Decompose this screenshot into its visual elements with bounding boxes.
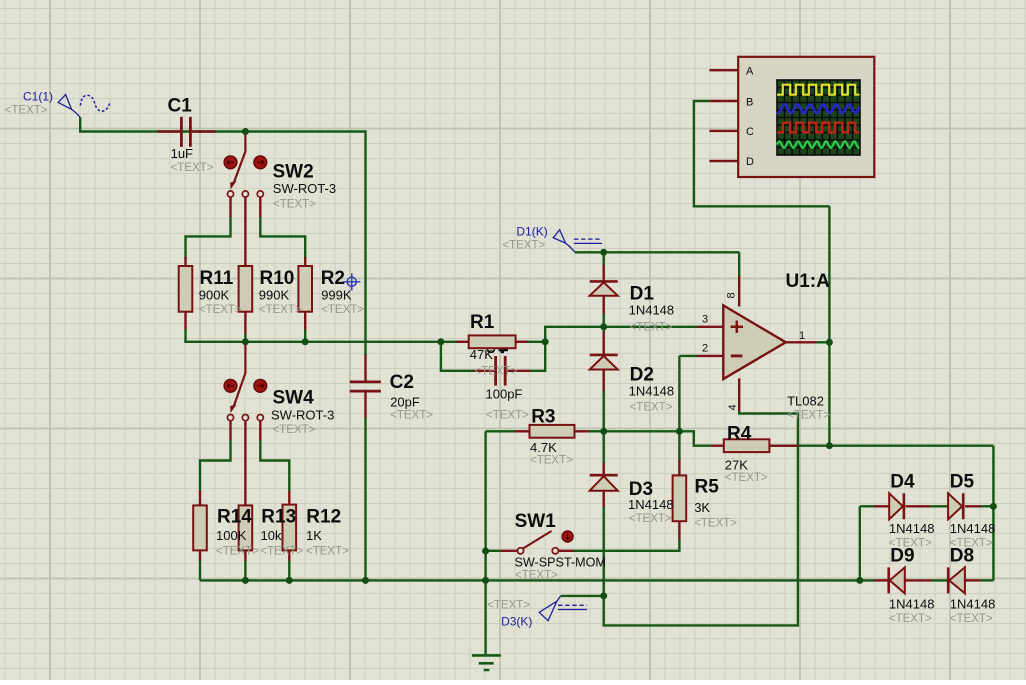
- pin R4 left: [712, 445, 725, 447]
- svg-text:R14: R14: [217, 507, 252, 528]
- wire D1 bottom: [603, 314, 605, 327]
- svg-text:1N4148: 1N4148: [629, 384, 675, 399]
- wire op-amp pin4 net: [604, 411, 798, 625]
- pin C1 left: [158, 130, 181, 132]
- pin D2 bottom: [603, 370, 605, 391]
- pin scope D: [709, 160, 738, 162]
- svg-text:<TEXT>: <TEXT>: [889, 613, 932, 625]
- wire SW2 pole3 to R2: [260, 217, 305, 259]
- svg-text:<TEXT>: <TEXT>: [321, 304, 364, 316]
- pin D1 top: [603, 265, 605, 282]
- capacitor C1: [181, 117, 190, 147]
- pin R12 bottom: [288, 550, 290, 560]
- switch SW4 pole dot left: [224, 379, 237, 392]
- wire R2 bottom: [304, 329, 306, 343]
- scope trace channel B (blue sine wave): [777, 104, 859, 113]
- pin D9 right: [905, 579, 932, 581]
- resistor R3: [530, 425, 575, 438]
- junction: [242, 577, 249, 584]
- wire R14 bottom: [199, 560, 201, 580]
- svg-text:TL082: TL082: [787, 394, 824, 409]
- svg-text:<TEXT>: <TEXT>: [629, 513, 672, 525]
- wire between D4 and D5: [930, 505, 948, 507]
- wire D2 bottom: [603, 390, 605, 431]
- pin D5 right: [965, 505, 980, 507]
- pin R5 top: [678, 459, 680, 476]
- pin op-amp 1 output: [786, 341, 817, 343]
- wire R10 bottom: [244, 334, 246, 343]
- svg-text:<TEXT>: <TEXT>: [216, 546, 259, 558]
- wire R11 bottom: [184, 329, 186, 343]
- wire R4 right to output node: [769, 445, 829, 447]
- svg-text:990K: 990K: [259, 288, 290, 303]
- wire SW4 pole3 to R12: [260, 440, 289, 492]
- svg-text:<TEXT>: <TEXT>: [273, 424, 316, 436]
- pin op-amp 2: [697, 355, 723, 357]
- svg-text:SW-ROT-3: SW-ROT-3: [271, 408, 334, 423]
- svg-text:<TEXT>: <TEXT>: [725, 472, 768, 484]
- svg-text:D2: D2: [630, 365, 654, 386]
- svg-text:10k: 10k: [261, 528, 282, 543]
- pin D4 left: [874, 505, 889, 507]
- pin R2 top: [304, 257, 306, 267]
- resistor R2: [298, 266, 312, 312]
- pin R3 right: [575, 430, 590, 432]
- svg-text:<TEXT>: <TEXT>: [630, 322, 673, 334]
- wire D1 top: [603, 252, 605, 265]
- pin R2 bottom: [304, 312, 306, 330]
- wire R1 right: [516, 341, 546, 343]
- terminal D3(K) flag: [539, 596, 587, 621]
- junction: [437, 338, 444, 345]
- svg-text:D1: D1: [630, 284, 655, 305]
- wire R3 left down to SW1: [484, 431, 486, 551]
- pin R14 top: [199, 491, 201, 505]
- junction: [600, 592, 607, 599]
- switch SW2 rotor arm: [230, 133, 245, 190]
- svg-text:D5: D5: [950, 472, 975, 493]
- wire op-amp output stub: [816, 341, 829, 343]
- diode D9: [889, 567, 905, 593]
- svg-text:100K: 100K: [216, 528, 247, 543]
- svg-text:<TEXT>: <TEXT>: [502, 240, 545, 252]
- wire op-amp pin2 stub: [679, 355, 697, 357]
- wire node to R4 left jog: [679, 431, 712, 445]
- svg-text:<TEXT>: <TEXT>: [260, 546, 303, 558]
- wire R3 left: [486, 430, 516, 432]
- SW2 contact 2: [242, 191, 248, 197]
- pin R4 right: [769, 445, 798, 447]
- pin scope B: [709, 100, 738, 102]
- pin op-amp 8: [738, 276, 740, 307]
- diode D2: [590, 355, 618, 370]
- svg-text:<TEXT>: <TEXT>: [259, 304, 302, 316]
- svg-text:100pF: 100pF: [486, 387, 523, 402]
- svg-text:<TEXT>: <TEXT>: [630, 402, 673, 414]
- oscilloscope screen: [777, 80, 860, 155]
- resistor R4: [724, 439, 770, 452]
- svg-text:999K: 999K: [321, 288, 352, 303]
- diode D8: [948, 567, 965, 593]
- terminal D1(K) flag: [553, 230, 602, 252]
- junction: [990, 503, 997, 510]
- svg-text:R2: R2: [321, 268, 345, 289]
- junction: [302, 338, 309, 345]
- scope trace channel A (yellow square wave): [777, 85, 860, 95]
- svg-text:8: 8: [726, 292, 738, 298]
- svg-text:1N4148: 1N4148: [889, 597, 935, 612]
- junction: [482, 548, 489, 555]
- diode D1: [590, 281, 618, 295]
- pin R14 bottom: [199, 550, 201, 560]
- svg-text:D1(K): D1(K): [516, 225, 547, 239]
- pin R3 left: [515, 430, 530, 432]
- svg-text:3K: 3K: [694, 500, 710, 515]
- svg-text:D4: D4: [890, 472, 915, 493]
- svg-text:<TEXT>: <TEXT>: [487, 600, 530, 612]
- svg-text:<TEXT>: <TEXT>: [475, 366, 518, 378]
- diode D5: [948, 493, 963, 519]
- pin C2 bottom: [364, 392, 366, 418]
- wire D8 right stub: [980, 579, 993, 581]
- switch SW1 momentary button: [562, 531, 573, 542]
- pin SW1 left: [501, 550, 518, 552]
- pin D3 top: [603, 463, 605, 476]
- switch SW1 lever: [523, 531, 552, 549]
- pin R5 bottom: [678, 521, 680, 540]
- switch SW4 rotor arm: [230, 343, 245, 413]
- svg-text:<TEXT>: <TEXT>: [950, 613, 993, 625]
- pin D1 bottom: [603, 296, 605, 314]
- pin SW2 contact3 stub: [259, 197, 261, 217]
- junction: [826, 339, 833, 346]
- svg-text:SW4: SW4: [273, 388, 315, 409]
- pin D4 right: [906, 505, 931, 507]
- hidden label under R1: [486, 348, 508, 353]
- wire R5 top: [678, 431, 680, 460]
- wire node row y431: [604, 430, 680, 432]
- svg-text:1N4148: 1N4148: [950, 521, 996, 536]
- wire D4 row to ground bus: [859, 506, 861, 580]
- resistor R5: [673, 475, 687, 521]
- svg-text:1: 1: [799, 330, 805, 342]
- SW2 contact 1: [227, 191, 233, 197]
- wire to ground: [484, 551, 486, 654]
- svg-text:20pF: 20pF: [390, 395, 420, 410]
- pin R13 top from SW4 pole2: [244, 421, 246, 506]
- terminal C1(1) flag: [58, 95, 110, 118]
- pin SW4 contact1 stub: [229, 421, 231, 440]
- wire rail to op-amp pin8: [738, 252, 740, 277]
- pin D8 right: [965, 579, 980, 581]
- resistor R12: [283, 505, 297, 551]
- svg-text:1N4148: 1N4148: [950, 597, 996, 612]
- wire R1 left pin stub: [441, 341, 458, 343]
- pin SW2 contact1 stub: [229, 197, 231, 217]
- wire node to op-amp pin3: [545, 327, 697, 342]
- pin op-amp 4: [738, 378, 740, 411]
- svg-text:1N4148: 1N4148: [889, 521, 935, 536]
- pin C1 right: [192, 130, 216, 132]
- svg-text:C1(1): C1(1): [23, 90, 53, 104]
- svg-text:R10: R10: [260, 268, 295, 289]
- wire D5 right stub: [980, 505, 993, 507]
- junction: [600, 249, 607, 256]
- svg-text:R1: R1: [470, 312, 495, 333]
- svg-text:<TEXT>: <TEXT>: [171, 162, 214, 174]
- svg-text:R11: R11: [200, 268, 234, 289]
- SW4 contact 1: [227, 415, 233, 421]
- svg-text:<TEXT>: <TEXT>: [390, 410, 433, 422]
- pin op-amp 3: [697, 326, 723, 328]
- scope trace channel C (red square wave): [777, 123, 860, 133]
- junction: [676, 428, 683, 435]
- switch SW2 pole dot right: [254, 156, 267, 169]
- wire resistor bus y342: [184, 341, 441, 343]
- svg-text:4.7K: 4.7K: [530, 440, 557, 455]
- pin D3 bottom: [603, 491, 605, 507]
- resistor R1: [469, 335, 516, 348]
- wire R5 bottom to SW1 right: [573, 539, 679, 550]
- wire D3 top: [603, 431, 605, 463]
- pin scope A: [709, 69, 738, 71]
- pin R12 top: [288, 491, 290, 504]
- svg-text:D8: D8: [950, 546, 974, 567]
- svg-text:3: 3: [702, 314, 708, 326]
- svg-text:<TEXT>: <TEXT>: [273, 199, 316, 211]
- wire D3 bottom to D3(K) node: [603, 506, 605, 596]
- wire pin2 down to node: [678, 356, 680, 431]
- switch SW2 pole dot left: [224, 156, 237, 169]
- wire SW2 pole1 to R11: [186, 217, 231, 259]
- SW4 contact 2: [242, 415, 248, 421]
- junction: [482, 577, 489, 584]
- pin SW4 contact3 stub: [259, 421, 261, 440]
- resistor R11: [179, 266, 193, 312]
- pin D9 left: [874, 579, 887, 581]
- pin 100pF left: [474, 370, 495, 372]
- svg-text:900K: 900K: [199, 288, 230, 303]
- switch SW1 contact right: [552, 548, 558, 554]
- svg-text:1K: 1K: [306, 528, 322, 543]
- svg-text:<TEXT>: <TEXT>: [694, 518, 737, 530]
- wire R3 right stub: [589, 430, 604, 432]
- wire 100pF right to node: [530, 342, 546, 371]
- svg-text:A: A: [746, 66, 754, 78]
- junction: [826, 442, 833, 449]
- wire ground bus y580: [200, 579, 875, 581]
- svg-text:D: D: [746, 156, 754, 168]
- resistor R10: [239, 266, 253, 312]
- wire R1 left to 100pF left: [441, 342, 475, 371]
- svg-text:C1: C1: [168, 96, 193, 117]
- wire input node to C2 top: [80, 117, 365, 356]
- pin scope C: [709, 130, 738, 132]
- pin D5 left: [947, 505, 950, 507]
- svg-text:<TEXT>: <TEXT>: [5, 105, 48, 117]
- svg-text:SW-SPST-MOM: SW-SPST-MOM: [515, 556, 606, 570]
- resistor R13: [239, 505, 253, 550]
- pin SW1 right: [559, 550, 574, 552]
- wire D3(K) terminal stub: [561, 595, 604, 597]
- wire output node to diode bridge: [829, 445, 993, 447]
- wire C2 bottom to ground bus: [364, 417, 366, 581]
- wire D1(K) terminal rail: [575, 251, 740, 253]
- oscilloscope body: [738, 57, 874, 177]
- capacitor 100pF: [496, 356, 506, 386]
- pin R1 left: [457, 341, 470, 343]
- op-amp U1:A: [723, 305, 786, 379]
- pin R11 top: [184, 257, 186, 267]
- svg-text:<TEXT>: <TEXT>: [486, 410, 529, 422]
- wire output vertical to scope rail: [828, 206, 830, 445]
- pin C2 top: [364, 355, 366, 382]
- svg-text:1N4148: 1N4148: [628, 497, 674, 512]
- wire SW4 pole1 to R14: [200, 440, 231, 492]
- svg-text:4: 4: [727, 404, 739, 410]
- junction: [242, 128, 249, 135]
- svg-text:<TEXT>: <TEXT>: [530, 455, 573, 467]
- wire between D9 and D8: [931, 579, 947, 581]
- capacitor C2: [350, 382, 381, 391]
- diode D3: [590, 475, 618, 491]
- svg-text:2: 2: [702, 343, 708, 355]
- pin R13 bottom: [244, 550, 246, 560]
- pin 100pF right: [506, 370, 530, 372]
- svg-text:D3(K): D3(K): [501, 615, 532, 629]
- svg-text:C: C: [746, 126, 754, 138]
- junction: [600, 323, 607, 330]
- pin R11 bottom: [184, 312, 186, 330]
- svg-text:<TEXT>: <TEXT>: [199, 304, 242, 316]
- pin D2 top: [603, 332, 605, 355]
- svg-text:SW2: SW2: [273, 162, 314, 183]
- svg-text:27K: 27K: [725, 458, 748, 473]
- pin R10 bottom: [244, 312, 246, 335]
- wire scope channel B to output: [694, 101, 830, 206]
- SW2 contact 3: [257, 191, 263, 197]
- pin R10 top from SW2 pole2: [244, 197, 246, 267]
- svg-text:C2: C2: [390, 372, 414, 393]
- junction: [362, 577, 369, 584]
- svg-text:<TEXT>: <TEXT>: [515, 570, 558, 582]
- switch SW4 pole dot right: [254, 379, 267, 392]
- svg-text:SW-ROT-3: SW-ROT-3: [273, 181, 336, 196]
- scope trace channel D (green sine wave): [777, 141, 859, 148]
- junction: [856, 577, 863, 584]
- junction: [542, 338, 549, 345]
- svg-text:47K: 47K: [470, 347, 493, 362]
- wire R13 bottom: [244, 560, 246, 580]
- svg-text:R12: R12: [306, 507, 341, 528]
- svg-text:1N4148: 1N4148: [629, 303, 675, 318]
- ground: [472, 655, 501, 670]
- svg-text:R4: R4: [727, 424, 752, 445]
- svg-text:<TEXT>: <TEXT>: [306, 546, 349, 558]
- SW4 contact 3: [257, 415, 263, 421]
- wire D2 top stub: [603, 327, 605, 333]
- svg-text:R5: R5: [695, 477, 720, 498]
- wire D4 left stub: [860, 505, 875, 507]
- wire R12 bottom: [288, 560, 290, 580]
- svg-text:B: B: [746, 96, 753, 108]
- resistor R14: [193, 505, 207, 550]
- junction: [242, 338, 249, 345]
- wire right column down: [992, 446, 994, 581]
- svg-text:R3: R3: [531, 407, 555, 428]
- svg-text:U1:A: U1:A: [786, 271, 831, 292]
- svg-text:SW1: SW1: [515, 511, 557, 532]
- svg-text:<TEXT>: <TEXT>: [787, 410, 830, 422]
- pin R1 right: [516, 341, 528, 343]
- svg-text:D9: D9: [890, 546, 914, 567]
- svg-text:R13: R13: [261, 507, 296, 528]
- svg-text:1uF: 1uF: [171, 146, 193, 161]
- junction: [600, 428, 607, 435]
- switch SW1 contact left: [517, 548, 523, 554]
- wire SW1 left stub: [486, 550, 501, 552]
- junction: [286, 577, 293, 584]
- diode D4: [889, 493, 904, 519]
- origin marker at R2: [343, 273, 360, 290]
